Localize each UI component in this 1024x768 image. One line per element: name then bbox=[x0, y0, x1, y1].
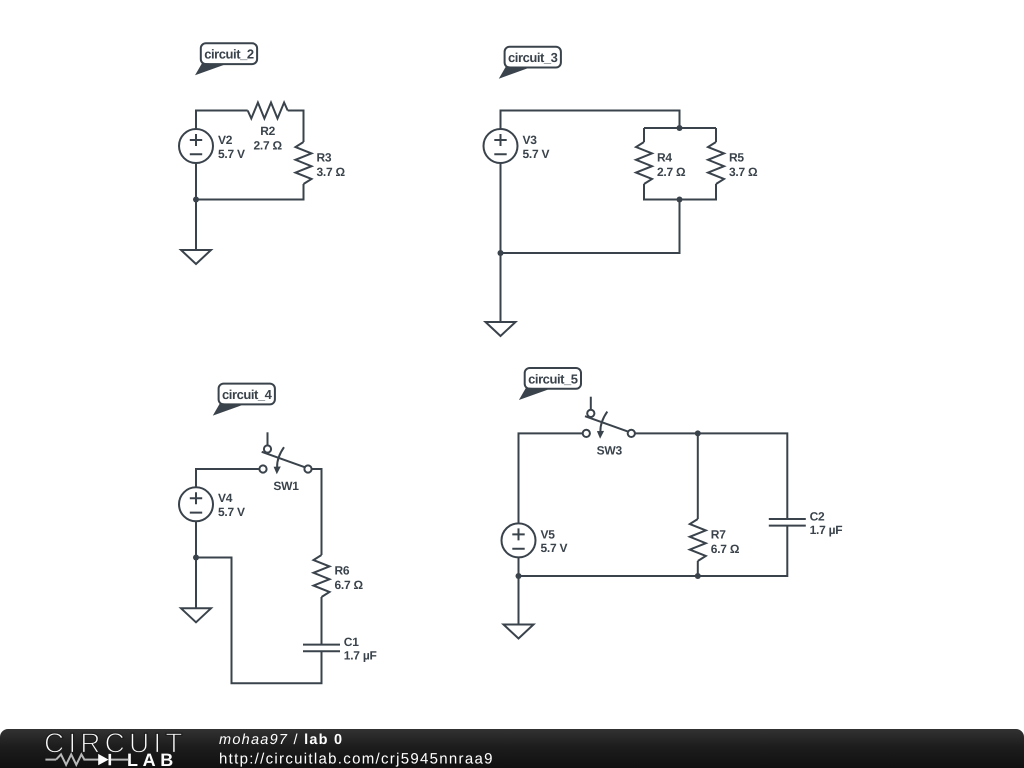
svg-text:circuit_3: circuit_3 bbox=[508, 50, 558, 65]
svg-text:circuit_4: circuit_4 bbox=[222, 387, 273, 402]
svg-text:mohaa97 / lab 0: mohaa97 / lab 0 bbox=[219, 732, 343, 748]
svg-text:R3: R3 bbox=[317, 151, 332, 165]
svg-text:V3: V3 bbox=[523, 133, 538, 147]
svg-text:6.7 Ω: 6.7 Ω bbox=[335, 578, 364, 592]
svg-text:3.7 Ω: 3.7 Ω bbox=[729, 165, 758, 179]
svg-text:5.7 V: 5.7 V bbox=[218, 147, 245, 161]
svg-text:5.7 V: 5.7 V bbox=[523, 147, 550, 161]
svg-text:V4: V4 bbox=[218, 491, 233, 505]
svg-text:V2: V2 bbox=[218, 133, 233, 147]
svg-text:V5: V5 bbox=[541, 527, 556, 541]
svg-text:1.7 µF: 1.7 µF bbox=[344, 649, 377, 663]
svg-text:LAB: LAB bbox=[127, 750, 178, 768]
svg-text:R5: R5 bbox=[729, 151, 744, 165]
svg-text:5.7 V: 5.7 V bbox=[541, 541, 568, 555]
svg-text:C2: C2 bbox=[810, 510, 825, 524]
svg-text:R7: R7 bbox=[711, 528, 726, 542]
svg-text:R2: R2 bbox=[260, 124, 275, 138]
svg-text:http://circuitlab.com/crj5945n: http://circuitlab.com/crj5945nnraa9 bbox=[219, 751, 494, 768]
svg-text:3.7 Ω: 3.7 Ω bbox=[317, 165, 346, 179]
svg-text:6.7 Ω: 6.7 Ω bbox=[711, 542, 740, 556]
svg-text:R4: R4 bbox=[657, 151, 672, 165]
svg-text:2.7 Ω: 2.7 Ω bbox=[254, 138, 283, 152]
svg-text:circuit_5: circuit_5 bbox=[528, 371, 578, 386]
svg-text:circuit_2: circuit_2 bbox=[204, 47, 254, 62]
svg-text:R6: R6 bbox=[335, 564, 350, 578]
svg-text:SW1: SW1 bbox=[273, 479, 299, 493]
svg-text:C1: C1 bbox=[344, 635, 359, 649]
svg-text:5.7 V: 5.7 V bbox=[218, 505, 245, 519]
svg-text:1.7 µF: 1.7 µF bbox=[810, 523, 843, 537]
svg-text:2.7 Ω: 2.7 Ω bbox=[657, 165, 686, 179]
svg-text:SW3: SW3 bbox=[597, 443, 623, 457]
